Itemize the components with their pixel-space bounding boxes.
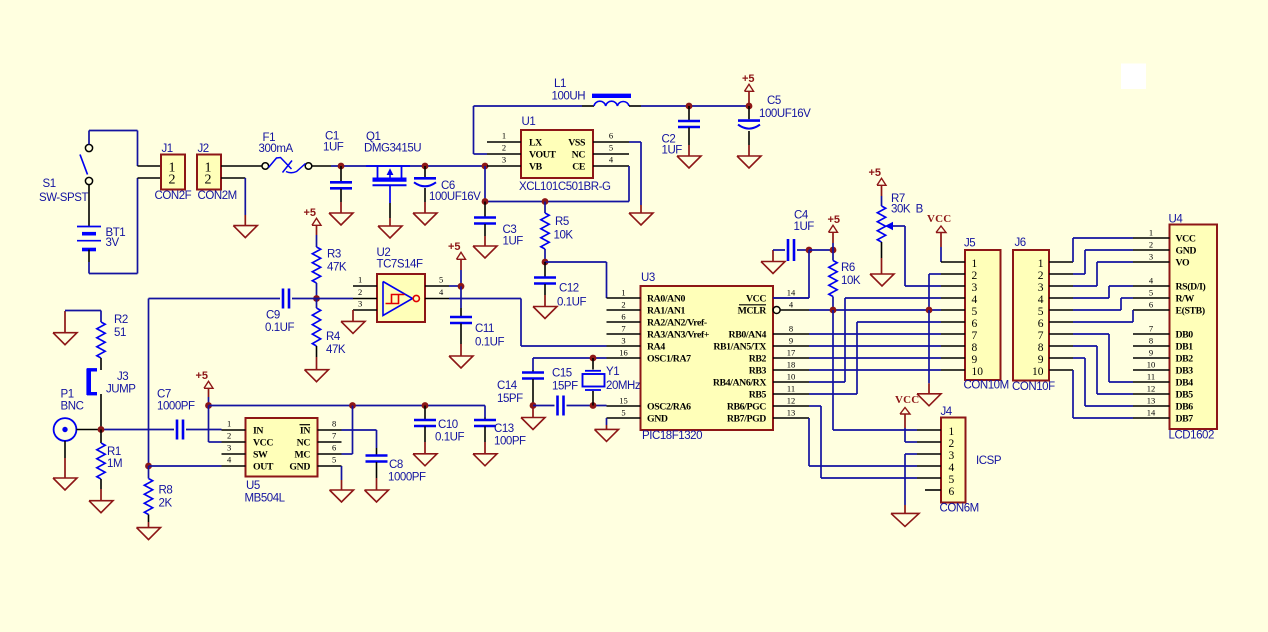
svg-text:11: 11 (1147, 372, 1155, 382)
ground under R4 (305, 357, 329, 382)
node R3 R4 junction (313, 295, 320, 302)
svg-text:0.1UF: 0.1UF (265, 322, 294, 334)
connector J4 CON6M (940, 406, 1002, 515)
J6 pin 6 (1049, 321, 1073, 323)
U5 pin 1 (222, 419, 246, 431)
svg-text:U5: U5 (246, 480, 260, 492)
U5 pin 8 (318, 419, 342, 431)
svg-text:2: 2 (621, 300, 625, 310)
svg-text:2: 2 (972, 270, 978, 282)
svg-text:C8: C8 (389, 459, 403, 471)
resistor R8 2K (144, 466, 172, 522)
wire RB1 to J5 pin8 (809, 345, 941, 347)
capacitor C10 (414, 406, 464, 444)
U4 pin 11 DB4 (1133, 372, 1193, 389)
svg-text:2: 2 (1149, 240, 1153, 250)
resistor R7 30K potentiometer (877, 193, 923, 258)
U4 pin 12 DB5 (1133, 384, 1193, 401)
J5 pin 10 (941, 369, 965, 371)
U3 pin 12 RB6/PGC (727, 396, 809, 413)
node VB junction (482, 163, 489, 170)
power +5 R3 (304, 207, 322, 235)
power VCC J5 (927, 213, 951, 262)
connector J1 CON2F (138, 143, 192, 202)
svg-text:VCC: VCC (895, 394, 919, 406)
resistor R1 1M (97, 430, 122, 490)
svg-text:OUT: OUT (253, 462, 274, 473)
node R5 junction (542, 198, 549, 205)
J5 pin 3 (941, 285, 965, 287)
node C10 junction (422, 402, 429, 409)
wire S1 top to J1 pin1 (89, 131, 138, 167)
svg-text:CON10M: CON10M (964, 380, 1009, 392)
J6 pin 8 (1049, 345, 1073, 347)
U3 pin 18 RB3 (749, 360, 809, 377)
svg-text:VO: VO (1176, 258, 1190, 269)
U3 pin 3 RA4 (607, 336, 666, 353)
U3 pin 4 MCLR (738, 300, 809, 317)
svg-text:+5: +5 (828, 214, 841, 226)
ground under J4 (891, 505, 919, 526)
power +5 top rail (742, 73, 755, 106)
svg-text:100UF16V: 100UF16V (759, 108, 811, 120)
svg-text:VCC: VCC (927, 213, 951, 225)
ground under U5 (330, 480, 354, 502)
J5 pin 8 (941, 345, 965, 347)
svg-text:C14: C14 (497, 380, 518, 392)
wire +5 to U5 MC (342, 406, 353, 455)
svg-text:RA1/AN1: RA1/AN1 (647, 306, 686, 317)
svg-text:U4: U4 (1169, 214, 1184, 226)
J4 pin 6 (925, 489, 941, 491)
svg-text:C9: C9 (266, 310, 280, 322)
capacitor C14 (497, 370, 544, 406)
svg-text:15PF: 15PF (552, 381, 578, 393)
ground under C12 (533, 295, 557, 319)
J6 pin 10 (1049, 369, 1073, 371)
J6 pin 4 (1049, 297, 1073, 299)
U3 pin 17 RB2 (749, 348, 809, 365)
wire U5 pin8 to C8 (342, 430, 377, 448)
svg-text:1: 1 (1038, 258, 1044, 270)
node C2 junction (686, 103, 693, 110)
U3 pin 15 OSC2/RA6 (607, 396, 692, 413)
svg-text:8: 8 (972, 342, 978, 354)
node Y1 bottom junction (590, 402, 597, 409)
U3 pin 16 OSC1/RA7 (607, 348, 692, 365)
svg-text:0.1UF: 0.1UF (475, 337, 504, 349)
wire main 3V rail (331, 165, 487, 167)
capacitor C2 (662, 106, 701, 157)
U3 pin 1 RA0/AN0 (607, 288, 686, 305)
U3 pin 9 RB1/AN5/TX (713, 336, 809, 353)
node R5 C12 junction (542, 259, 549, 266)
svg-text:DB4: DB4 (1176, 378, 1194, 389)
svg-text:30K B: 30K B (891, 204, 924, 216)
ground under C2 (677, 145, 701, 168)
op-amp U2 TC7S14F schmitt inverter (377, 247, 426, 322)
svg-text:7: 7 (972, 330, 978, 342)
capacitor C7 (157, 389, 222, 440)
svg-text:6: 6 (609, 131, 613, 141)
ground under R8 (137, 522, 161, 540)
svg-text:DB6: DB6 (1176, 402, 1194, 413)
node U3 VCC junction (806, 247, 813, 254)
svg-text:3V: 3V (106, 237, 120, 249)
U5 pin 2 (222, 431, 246, 443)
svg-text:+5: +5 (869, 167, 882, 179)
svg-text:3: 3 (227, 443, 231, 453)
svg-text:S1: S1 (43, 178, 56, 190)
svg-text:J3: J3 (117, 371, 128, 383)
svg-text:RA0/AN0: RA0/AN0 (647, 294, 686, 305)
ground under C5 (737, 145, 761, 168)
svg-text:0.1UF: 0.1UF (557, 297, 586, 309)
J6 pin 9 (1049, 357, 1073, 359)
svg-text:6: 6 (949, 486, 955, 498)
node R6 MCLR junction (830, 307, 837, 314)
svg-text:20MHz: 20MHz (606, 380, 641, 392)
wire RB7 PGD to J4 pin4 (809, 418, 917, 466)
connector J6 CON10F (1012, 237, 1055, 393)
svg-text:9: 9 (972, 354, 978, 366)
svg-text:300mA: 300mA (259, 143, 294, 155)
J6 pin 3 (1049, 285, 1073, 287)
svg-text:100PF: 100PF (494, 436, 526, 448)
ground under C8 (365, 478, 389, 502)
svg-text:3: 3 (358, 299, 362, 309)
U4 pin 10 DB3 (1133, 360, 1193, 377)
capacitor C3 (474, 202, 523, 248)
svg-text:13: 13 (787, 408, 796, 418)
U2 pin 3 (353, 299, 377, 311)
svg-text:10: 10 (1147, 360, 1156, 370)
svg-text:DB2: DB2 (1176, 354, 1194, 365)
U3 pin 8 RB0/AN4 (729, 324, 809, 341)
svg-text:5: 5 (1038, 306, 1044, 318)
svg-text:RB0/AN4: RB0/AN4 (729, 330, 767, 341)
svg-text:R2: R2 (114, 314, 128, 326)
wire J6 pin5 to U4 (1073, 298, 1133, 310)
U4 pin 8 DB1 (1133, 336, 1193, 353)
svg-text:3: 3 (1149, 252, 1153, 262)
svg-text:OSC2/RA6: OSC2/RA6 (647, 402, 691, 413)
svg-text:ICSP: ICSP (976, 455, 1002, 467)
svg-text:C11: C11 (475, 323, 494, 335)
white patch (1121, 64, 1146, 90)
power +5 U5 (196, 370, 214, 406)
svg-text:18: 18 (787, 360, 796, 370)
svg-text:VSS: VSS (568, 138, 586, 149)
U2 pin 4 (425, 287, 449, 299)
svg-text:6: 6 (1038, 318, 1044, 330)
svg-text:5: 5 (1149, 288, 1153, 298)
ground under R7 (870, 258, 894, 286)
U4 pin 6 E(STB) (1133, 300, 1205, 317)
connector P1 BNC (54, 389, 84, 441)
ground under VSS (629, 205, 653, 225)
svg-text:3: 3 (502, 155, 506, 165)
svg-text:+5: +5 (742, 73, 755, 85)
node U5 MC junction (349, 402, 356, 409)
wire RB4 to J5 pin4 (809, 298, 941, 382)
wire J6 pin1 to U4 (1073, 238, 1133, 262)
svg-text:3: 3 (1038, 282, 1044, 294)
wire J6 pin9 to U4 DB6 (1073, 358, 1133, 406)
U3 pin 6 RA2/AN2/Vref- (607, 312, 707, 329)
U5 pin 6 (318, 443, 342, 455)
svg-text:VB: VB (529, 162, 543, 173)
ground under C10 (413, 442, 437, 466)
node C5 +5 junction (746, 103, 753, 110)
ground under C6 (413, 202, 437, 225)
resistor R3 47K (312, 235, 347, 299)
ground under J5 (917, 383, 941, 406)
U2 pin 5 (425, 275, 449, 287)
fuse F1 300mA (259, 132, 332, 173)
svg-text:R8: R8 (159, 485, 173, 497)
svg-text:9: 9 (1149, 348, 1153, 358)
wire +5 to U5 VCC (209, 406, 222, 443)
U4 pin 2 GND (1133, 240, 1196, 257)
wire +5 rail (209, 405, 486, 407)
node U2 vcc junction (449, 283, 464, 290)
U3 pin 10 RB4/AN6/RX (713, 372, 809, 389)
U5 pin 3 (222, 443, 246, 455)
svg-text:C10: C10 (438, 419, 458, 431)
svg-text:8: 8 (789, 324, 793, 334)
wire VOUT loop to L1 (474, 106, 583, 154)
svg-text:1UF: 1UF (503, 236, 524, 248)
svg-text:C15: C15 (552, 368, 572, 380)
resistor R2 51 (65, 311, 128, 371)
ground under C3 (473, 236, 497, 258)
op-amp U1 XCL101C501BR-G (519, 116, 611, 193)
U1 pin 2 (487, 143, 521, 155)
svg-text:R3: R3 (327, 249, 341, 261)
svg-text:3: 3 (621, 336, 625, 346)
ground under C14 (521, 406, 545, 430)
crystal Y1 20MHz (583, 358, 641, 406)
svg-text:14: 14 (787, 288, 796, 298)
wire R8 node to U5 OUT (149, 465, 222, 467)
svg-text:C13: C13 (494, 423, 514, 435)
ground under Q1 (378, 218, 402, 238)
U3 pin 5 GND (607, 408, 668, 425)
svg-text:U2: U2 (377, 247, 391, 259)
J5 pin 9 (941, 357, 965, 359)
svg-text:CE: CE (572, 162, 586, 173)
svg-text:DB5: DB5 (1176, 390, 1194, 401)
svg-text:VCC: VCC (253, 438, 273, 449)
svg-text:R/W: R/W (1176, 294, 1195, 305)
capacitor C8 (366, 448, 427, 484)
J6 pin 1 (1049, 261, 1073, 263)
ground under BNC (53, 441, 77, 490)
U3 pin 2 RA1/AN1 (607, 300, 686, 317)
svg-text:8: 8 (1149, 336, 1153, 346)
svg-text:7: 7 (621, 324, 625, 334)
power VCC J4 (895, 394, 919, 442)
svg-text:1: 1 (1149, 228, 1153, 238)
node J5 ground junction (926, 307, 933, 314)
node C1 junction (338, 163, 345, 170)
svg-text:1UF: 1UF (794, 221, 815, 233)
svg-text:7: 7 (1149, 324, 1153, 334)
svg-text:CON10F: CON10F (1012, 381, 1055, 393)
U4 pin 14 DB7 (1133, 408, 1193, 425)
op-amp U3 PIC18F1320 (641, 272, 774, 442)
wire J6 pin6 to U4 (1073, 310, 1133, 322)
svg-text:DB7: DB7 (1176, 414, 1194, 425)
wire C9 branch vertical (148, 299, 150, 467)
svg-text:LX: LX (529, 138, 542, 149)
svg-text:2: 2 (205, 173, 212, 188)
J4 pin 3 (917, 453, 941, 455)
jumper J3 JUMP (87, 369, 136, 396)
svg-text:12: 12 (1147, 384, 1156, 394)
svg-text:17: 17 (787, 348, 796, 358)
svg-text:1UF: 1UF (323, 142, 344, 154)
svg-text:R1: R1 (107, 446, 121, 458)
svg-text:U1: U1 (522, 116, 536, 128)
svg-text:1UF: 1UF (662, 145, 683, 157)
battery BT1 (77, 185, 125, 262)
J6 pin 5 (1049, 309, 1073, 311)
U2 pin 1 (353, 275, 377, 287)
svg-text:2: 2 (169, 173, 176, 188)
power +5 R6 (828, 214, 841, 250)
wire J4 pin3 to ground (905, 454, 917, 505)
node C3 junction (482, 198, 489, 205)
svg-text:5: 5 (332, 455, 336, 465)
svg-text:J4: J4 (941, 406, 953, 418)
svg-text:51: 51 (114, 327, 126, 339)
connector J5 CON10M (964, 238, 1009, 392)
J6 pin 7 (1049, 333, 1073, 335)
op-amp U4 LCD1602 (1169, 214, 1218, 442)
svg-text:14: 14 (1147, 408, 1156, 418)
svg-text:DB0: DB0 (1176, 330, 1194, 341)
wire J6 pin3 to U4 (1073, 262, 1133, 286)
svg-text:XCL101C501BR-G: XCL101C501BR-G (519, 181, 611, 193)
svg-text:GND: GND (647, 414, 668, 425)
J5 pin 1 (941, 261, 965, 263)
wire J6 pin10 to U4 DB7 (1073, 370, 1133, 418)
svg-text:RB1/AN5/TX: RB1/AN5/TX (713, 342, 766, 353)
svg-text:IN: IN (253, 426, 263, 437)
wire RB5 to J5 pin6 (809, 322, 941, 394)
capacitor C1 (323, 131, 352, 203)
svg-text:J6: J6 (1015, 237, 1026, 249)
svg-text:1M: 1M (107, 458, 122, 470)
svg-text:6: 6 (332, 443, 336, 453)
connector J2 CON2M (197, 143, 262, 202)
wire RB2 to J5 pin9 (809, 357, 941, 359)
svg-text:MB504L: MB504L (245, 493, 286, 505)
J5 pin 7 (941, 333, 965, 335)
svg-text:2: 2 (358, 287, 362, 297)
wire U2 output to RA4 (449, 299, 607, 347)
svg-text:15PF: 15PF (497, 393, 523, 405)
svg-text:100UF16V: 100UF16V (429, 191, 481, 203)
svg-text:2: 2 (1038, 270, 1044, 282)
wire MCLR net (809, 309, 941, 311)
U5 pin 7 (318, 431, 342, 443)
wire MCLR to J4 pin1 (833, 310, 917, 430)
svg-text:8: 8 (332, 419, 336, 429)
ground under C11 (449, 344, 473, 368)
ground under U2 pin3 (341, 310, 365, 333)
U5 pin 4 (222, 455, 246, 467)
U5 pin 5 (318, 455, 342, 467)
wire R5 node to RA0 (545, 262, 607, 298)
svg-text:R6: R6 (841, 262, 855, 274)
svg-text:RA3/AN3/Vref+: RA3/AN3/Vref+ (647, 330, 710, 341)
svg-text:NC: NC (572, 150, 586, 161)
U4 pin 4 RS(D/I) (1133, 276, 1205, 293)
node R1 junction (98, 426, 105, 433)
svg-text:47K: 47K (326, 344, 346, 356)
svg-text:5: 5 (439, 275, 443, 285)
svg-text:1: 1 (358, 275, 362, 285)
J5 pin 5 (941, 309, 965, 311)
svg-text:8: 8 (1038, 342, 1044, 354)
U4 pin 13 DB6 (1133, 396, 1193, 413)
svg-text:RB7/PGD: RB7/PGD (727, 414, 766, 425)
svg-text:SW-SPST: SW-SPST (39, 192, 88, 204)
svg-text:MCLR: MCLR (738, 306, 768, 317)
svg-text:6: 6 (972, 318, 978, 330)
wire J6 pin4 to U4 (1073, 286, 1133, 298)
wire J6 pin7 to U4 DB4 (1073, 334, 1133, 382)
svg-text:1: 1 (621, 288, 625, 298)
ground above R2 (53, 311, 77, 345)
capacitor C12 (534, 262, 586, 309)
svg-text:RB6/PGC: RB6/PGC (727, 402, 766, 413)
capacitor C5 polarized (738, 95, 811, 145)
svg-text:GND: GND (289, 462, 310, 473)
U3 pin 7 RA3/AN3/Vref+ (607, 324, 710, 341)
svg-text:1: 1 (227, 419, 231, 429)
svg-text:9: 9 (1038, 354, 1044, 366)
ground left of C4 (761, 250, 785, 274)
svg-text:BNC: BNC (61, 401, 84, 413)
svg-text:CON2F: CON2F (155, 190, 192, 202)
svg-text:C3: C3 (503, 224, 517, 236)
svg-text:J1: J1 (162, 143, 173, 155)
svg-text:Y1: Y1 (606, 366, 619, 378)
svg-text:5: 5 (621, 408, 625, 418)
svg-text:+5: +5 (196, 370, 209, 382)
wire RB3 to J5 pin10 (809, 369, 941, 371)
svg-text:1: 1 (949, 426, 955, 438)
svg-text:3: 3 (949, 450, 955, 462)
svg-text:7: 7 (1038, 330, 1044, 342)
power +5 R7 (869, 167, 887, 196)
svg-text:Q1: Q1 (366, 131, 380, 143)
J4 pin 2 (917, 441, 941, 443)
U4 pin 9 DB2 (1133, 348, 1193, 365)
svg-text:RB4/AN6/RX: RB4/AN6/RX (713, 378, 766, 389)
transistor Q1 DMG3415U (364, 131, 421, 218)
U1 pin 1 (487, 131, 521, 143)
svg-text:5: 5 (972, 306, 978, 318)
svg-text:+5: +5 (448, 241, 461, 253)
svg-text:IN: IN (300, 426, 310, 437)
svg-text:2K: 2K (159, 498, 173, 510)
capacitor C4 (773, 210, 814, 262)
